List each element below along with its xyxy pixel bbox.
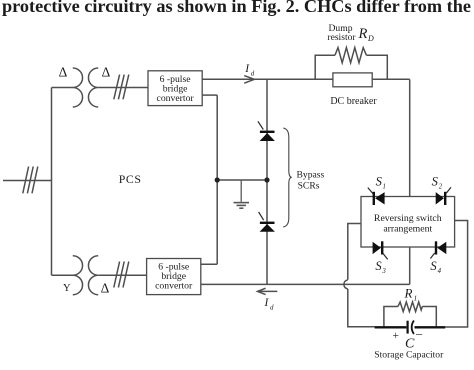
transformer T2 [73, 256, 98, 295]
svg-text:d: d [251, 70, 255, 78]
wire bottom dc link [201, 283, 410, 285]
3-phase slash marks T1 [114, 75, 129, 100]
svg-text:Δ: Δ [101, 281, 110, 296]
label C [405, 337, 415, 352]
arrow Id top [244, 76, 254, 84]
svg-text:4: 4 [438, 268, 442, 275]
label delta left T1 [59, 64, 68, 79]
svg-text:R: R [358, 26, 368, 42]
svg-text:−: − [416, 327, 423, 342]
label Dump resistor [327, 23, 356, 43]
svg-text:PCS: PCS [119, 172, 142, 186]
label minus [416, 327, 423, 342]
thyristor S1 [368, 188, 385, 205]
label RD [358, 26, 375, 43]
thyristor S4 [430, 241, 446, 258]
label S1 [376, 175, 386, 191]
wire right vertical to reversing switch [409, 79, 411, 196]
svg-text:1: 1 [414, 294, 418, 303]
wire reversing right exit [445, 221, 468, 328]
svg-text:resistor: resistor [327, 32, 356, 43]
svg-text:Δ: Δ [102, 64, 111, 79]
svg-text:Storage Capacitor: Storage Capacitor [374, 350, 444, 361]
svg-text:SCRs: SCRs [298, 181, 320, 192]
label S4 [430, 259, 441, 275]
svg-text:Δ: Δ [59, 64, 68, 79]
label Id top [244, 63, 255, 78]
svg-text:S: S [432, 175, 439, 189]
svg-text:d: d [270, 304, 274, 312]
wire left bus vertical [51, 88, 53, 276]
svg-text:D: D [367, 34, 374, 43]
label plus [393, 330, 400, 342]
svg-text:arrangement: arrangement [383, 224, 432, 235]
thyristor S3 [373, 241, 388, 259]
ground [234, 203, 250, 209]
label DC breaker [330, 96, 377, 107]
wire T2 left lead [52, 274, 74, 276]
resistor R1 loop [384, 302, 436, 327]
capacitor C [375, 321, 446, 335]
wire reversing bottom stub [409, 247, 411, 284]
label Id bottom [264, 297, 275, 312]
3-phase slash marks input [23, 167, 38, 194]
converter box upper [148, 71, 202, 106]
transformer T1 [73, 68, 98, 107]
label S2 [432, 175, 443, 191]
svg-text:DC breaker: DC breaker [330, 96, 377, 107]
wire reversing left exit [344, 224, 375, 327]
wire T1 left lead [52, 87, 74, 89]
thyristor S2 [436, 187, 451, 205]
DC breaker box [333, 73, 372, 87]
label delta right T1 [102, 64, 111, 79]
3-phase slash marks T2 [114, 262, 129, 288]
svg-text:+: + [393, 330, 400, 342]
svg-text:3: 3 [381, 268, 386, 275]
arrow Id bottom [258, 288, 278, 294]
wire crossbar between buses [217, 179, 267, 181]
brace bypass [283, 128, 292, 227]
svg-text:Y: Y [63, 283, 71, 294]
svg-text:convertor: convertor [155, 281, 193, 292]
wire top dc link [202, 78, 410, 80]
converter box lower [147, 259, 201, 295]
svg-text:convertor: convertor [157, 93, 195, 104]
wire mid vertical bus [216, 95, 218, 264]
svg-text:R: R [404, 286, 413, 301]
label Y T2 [63, 283, 71, 294]
svg-text:2: 2 [439, 184, 443, 191]
svg-text:S: S [430, 259, 437, 273]
wire T1 right lead [98, 87, 148, 89]
svg-text:Reversing switch: Reversing switch [374, 213, 442, 224]
reversing switch box [361, 197, 455, 248]
thyristor bypass upper [258, 121, 275, 141]
node junction left [215, 177, 220, 182]
node junction right [264, 177, 269, 182]
wire 3-phase input [3, 180, 52, 182]
wire converter2 upper output [201, 263, 217, 265]
svg-text:S: S [375, 259, 382, 273]
dump resistor RD loop [315, 48, 387, 80]
wire bypass vertical [266, 79, 268, 284]
svg-text:1: 1 [383, 184, 386, 191]
label R1 [404, 286, 418, 303]
wire ground stub [240, 180, 242, 202]
wire converter1 lower output [202, 94, 217, 96]
label Bypass SCRs [297, 170, 325, 192]
label Storage Capacitor [374, 350, 444, 361]
wire T2 right lead [98, 274, 146, 276]
thyristor bypass lower [259, 212, 275, 232]
label PCS [119, 172, 142, 186]
svg-text:Bypass: Bypass [297, 170, 325, 181]
label delta T2 [101, 281, 110, 296]
label S3 [375, 259, 386, 275]
caption text [2, 0, 471, 16]
svg-text:protective circuitry as shown: protective circuitry as shown in Fig. 2.… [2, 0, 471, 16]
